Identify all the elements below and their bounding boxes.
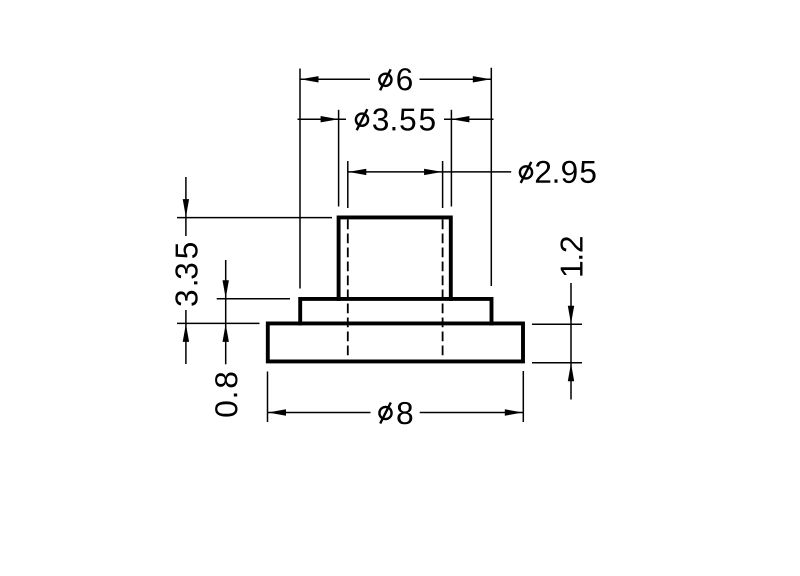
Ø3.55 right arrowhead	[451, 116, 469, 122]
middle flange outline	[300, 299, 491, 324]
Ø3.55 dimension line right part	[444, 118, 494, 120]
Ø3.55 diameter symbol	[356, 109, 368, 130]
1.2 bottom extension line	[532, 362, 582, 364]
Ø8 right arrowhead	[505, 409, 523, 415]
Ø2.95 dimension line	[348, 171, 443, 173]
Ø6 dimension line right part	[420, 78, 492, 80]
Ø8 diameter symbol	[379, 403, 391, 424]
Ø8 value text	[397, 402, 412, 424]
dimension 3.35	[175, 177, 332, 364]
Ø8 left extension line	[267, 372, 269, 423]
Ø6 value text	[397, 68, 412, 90]
dimension Ø3.55	[298, 108, 494, 206]
1.2 value text	[560, 237, 582, 276]
Ø6 left extension line	[299, 69, 301, 289]
Ø8 dimension line left part	[268, 412, 371, 414]
1.2 dimension line bottom tail	[570, 363, 572, 400]
Ø3.55 left arrowhead	[321, 116, 339, 122]
0.8 value text	[215, 373, 237, 417]
Ø6 right extension line	[490, 68, 492, 286]
Ø3.55 value text	[373, 108, 435, 130]
Ø2.95 diameter symbol	[520, 162, 532, 183]
Ø2.95 value text	[536, 161, 596, 183]
Ø6 left arrowhead	[301, 76, 319, 82]
1.2 top extension line	[532, 323, 582, 325]
0.8 top arrowhead	[223, 280, 229, 298]
Ø8 dimension line right part	[420, 412, 524, 414]
Ø3.55 dimension line left part	[298, 118, 347, 120]
Ø3.55 left extension line	[338, 110, 340, 207]
Ø2.95 left extension line	[347, 161, 349, 208]
Ø6 dimension line left part	[300, 78, 370, 80]
Ø8 left arrowhead	[268, 409, 286, 415]
Ø3.55 right extension line	[450, 110, 452, 207]
3.35 bottom arrowhead	[183, 324, 189, 342]
Ø6 right arrowhead	[473, 76, 491, 82]
1.2 bottom arrowhead	[568, 363, 574, 381]
dimension 0.8	[215, 260, 290, 417]
Ø2.95 leader line	[443, 171, 512, 173]
hidden hole line left	[347, 220, 349, 362]
part outline	[268, 217, 523, 361]
Ø6 diameter symbol	[379, 69, 391, 90]
0.8 top extension line	[217, 298, 290, 300]
Ø8 right extension line	[522, 371, 524, 422]
Ø2.95 right extension line	[442, 161, 444, 208]
3.35 top arrowhead	[183, 199, 189, 217]
1.2 top arrowhead	[568, 306, 574, 324]
0.8 dimension line bottom tail	[225, 323, 227, 364]
boss (top cylinder) outline	[339, 217, 451, 299]
hidden hole line right	[442, 220, 444, 362]
bottom flange outline	[268, 323, 523, 361]
1.2 dimension line top tail	[570, 283, 572, 324]
Ø2.95 left arrowhead	[348, 169, 366, 175]
dimension Ø2.95	[348, 161, 596, 208]
0.8 dimension line top tail	[225, 260, 227, 299]
3.35 dimension line bottom tail	[185, 310, 187, 364]
3.35 dimension line top tail	[185, 177, 187, 236]
0.8 dimension line middle segment	[225, 299, 227, 324]
dimension 1.2	[532, 237, 583, 399]
dimension Ø6	[300, 68, 491, 289]
dimension Ø8	[268, 371, 524, 424]
0.8 bottom arrowhead	[223, 324, 229, 342]
3.35 bottom extension line	[177, 322, 260, 324]
3.35 value text	[175, 243, 197, 306]
1.2 dimension line middle segment	[570, 324, 572, 362]
Ø2.95 right arrowhead	[424, 169, 442, 175]
3.35 top extension line	[177, 217, 332, 219]
